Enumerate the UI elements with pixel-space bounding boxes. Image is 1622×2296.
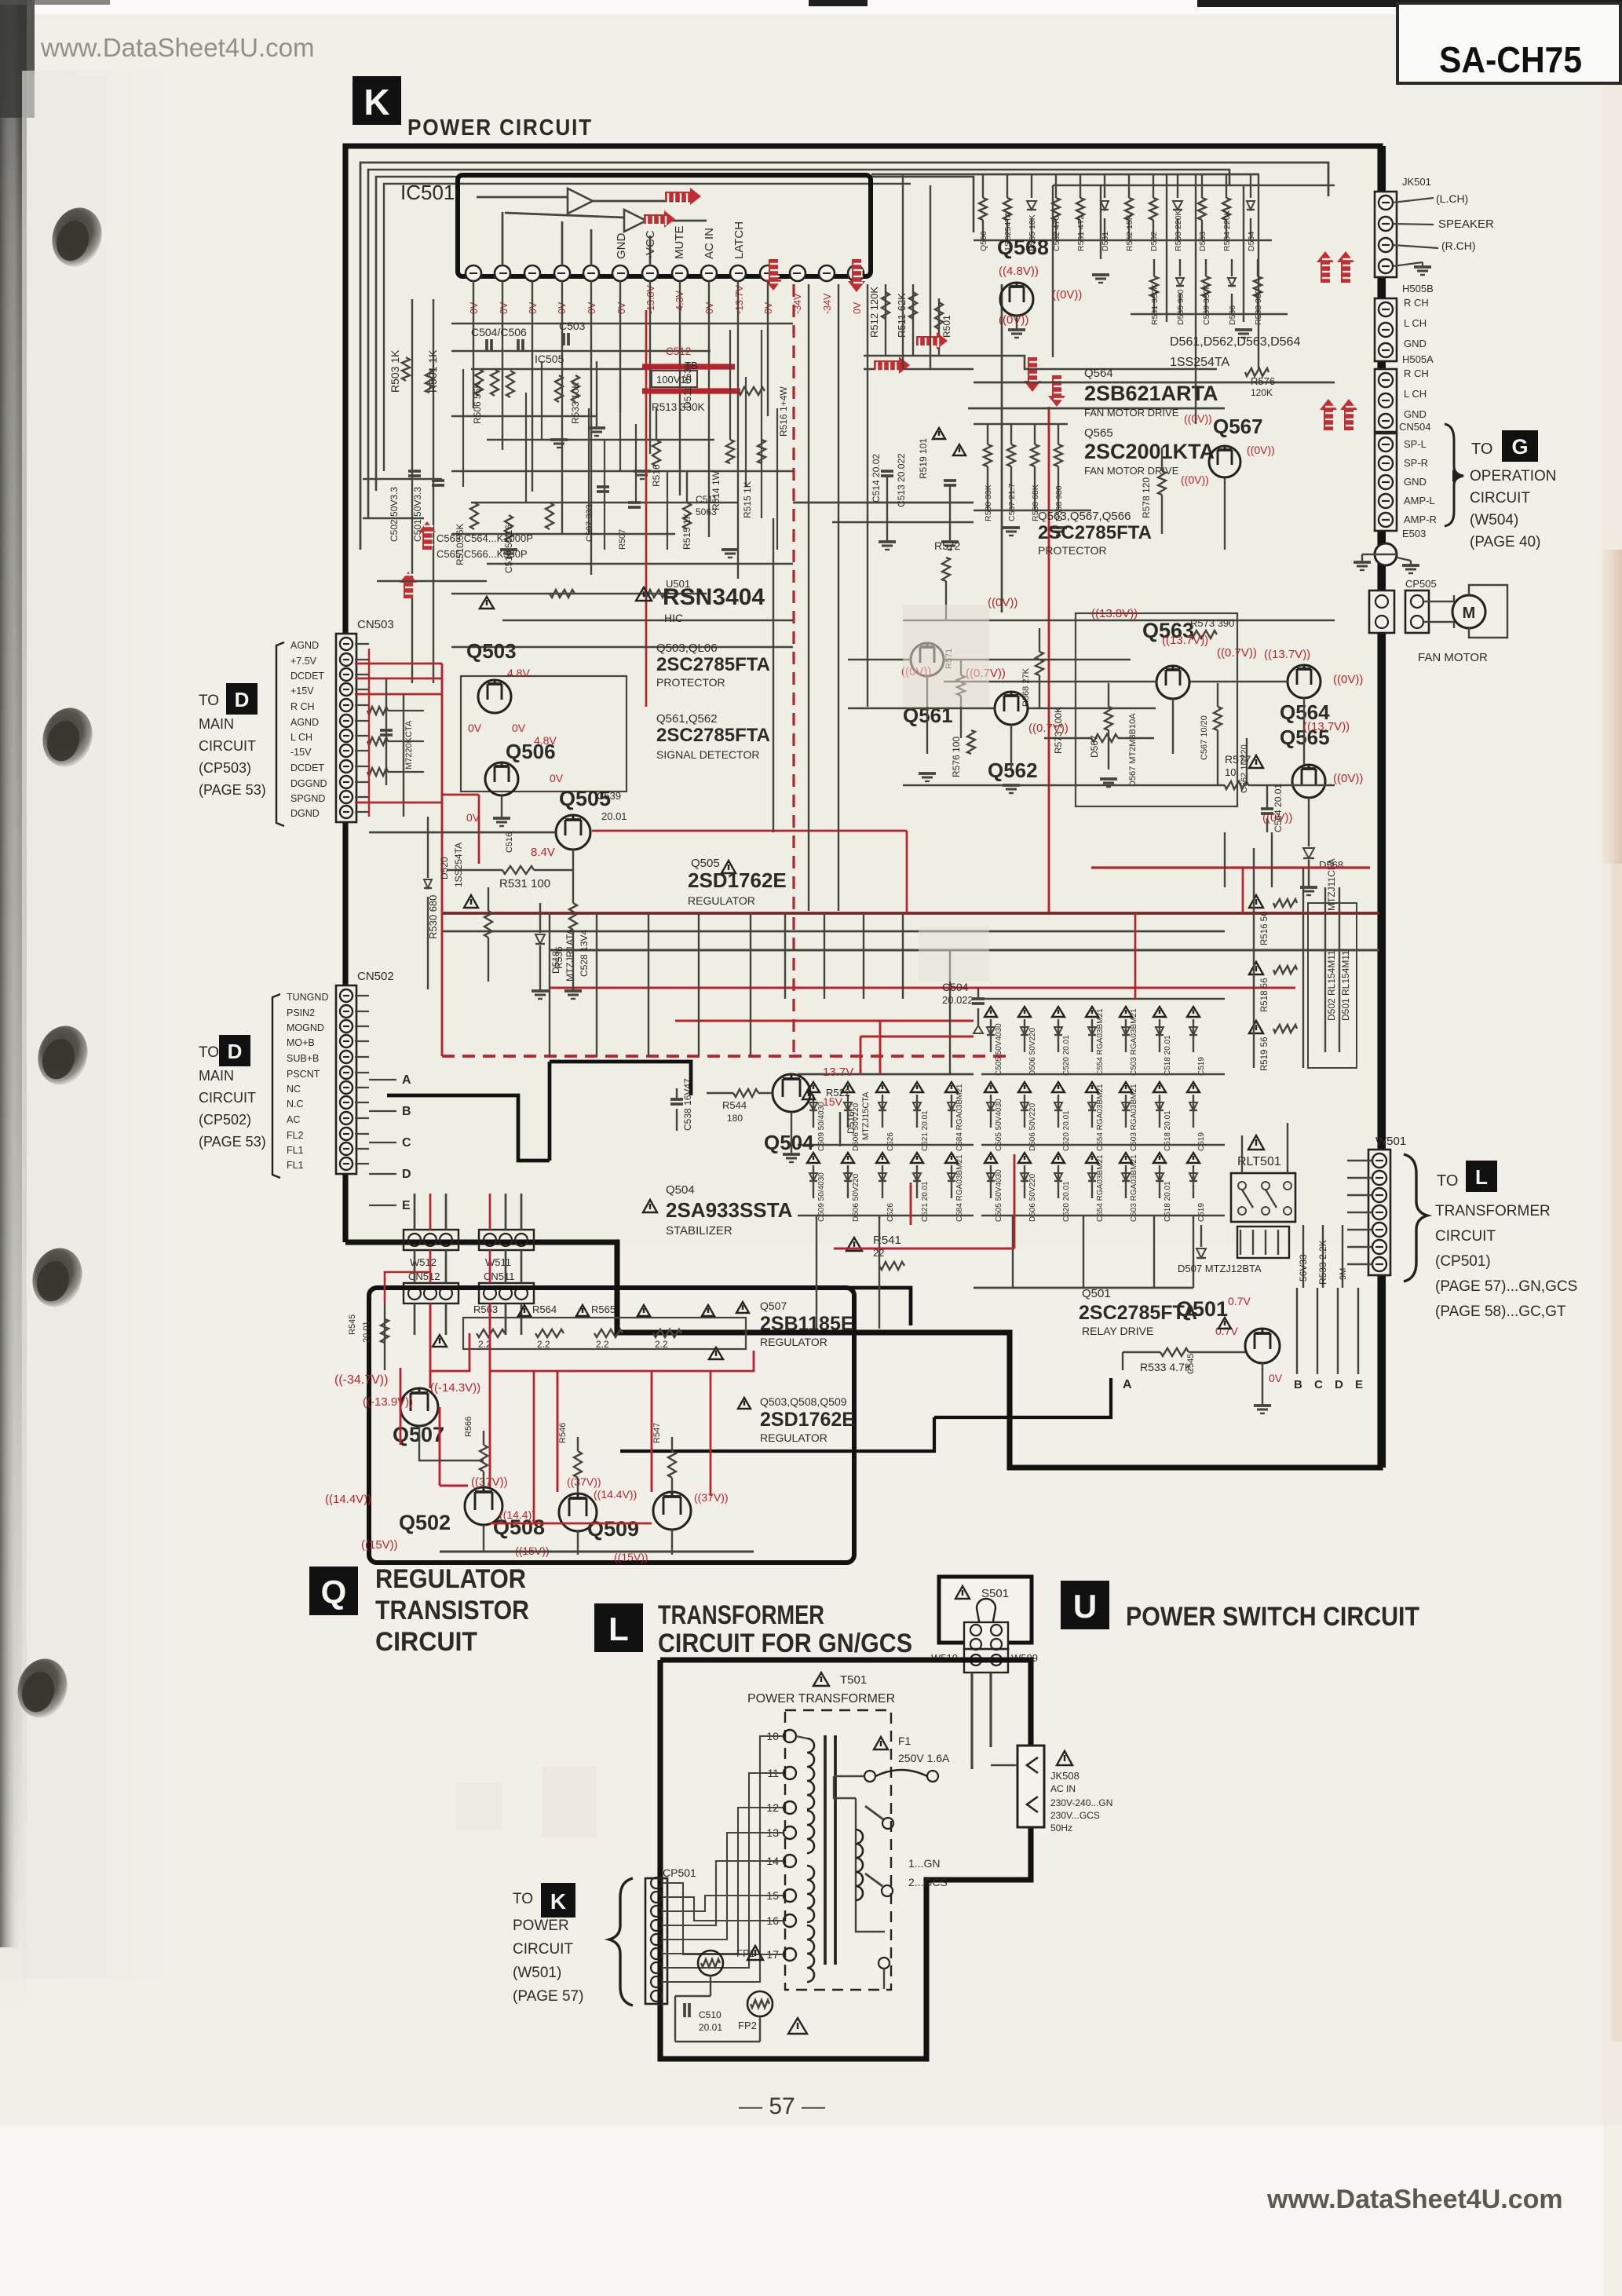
svg-text:D506 50V220: D506 50V220 [1028, 1027, 1037, 1076]
svg-text:R546: R546 [558, 1423, 568, 1443]
svg-text:D561: D561 [1101, 232, 1110, 251]
svg-text:TO: TO [199, 693, 219, 709]
svg-text:((15V)): ((15V)) [361, 1538, 398, 1552]
svg-text:GND: GND [615, 233, 628, 260]
svg-text:R581 330K: R581 330K [1150, 283, 1160, 325]
svg-text:180: 180 [727, 1113, 743, 1124]
svg-text:R572: R572 [934, 539, 961, 552]
svg-text:C509 50/4030: C509 50/4030 [817, 1172, 826, 1222]
svg-text:R580 33K: R580 33K [984, 484, 993, 521]
svg-text:IC505: IC505 [535, 353, 564, 365]
svg-text:D506 50V220: D506 50V220 [852, 1173, 860, 1222]
svg-text:AMP-L: AMP-L [1404, 495, 1435, 506]
svg-text:MO+B: MO+B [287, 1037, 315, 1048]
svg-text:Q501: Q501 [1176, 1297, 1228, 1321]
svg-text:R578 120: R578 120 [1141, 477, 1152, 518]
svg-text:A: A [402, 1073, 411, 1087]
svg-text:2...GCS: 2...GCS [908, 1876, 948, 1888]
svg-text:CN511: CN511 [484, 1270, 515, 1282]
svg-text:L: L [608, 1610, 629, 1647]
svg-text:C554 RGA03BM21: C554 RGA03BM21 [1096, 1008, 1105, 1076]
svg-text:TRANSFORMER: TRANSFORMER [658, 1600, 824, 1630]
svg-text:15V: 15V [823, 1095, 843, 1108]
svg-text:C564 20.01: C564 20.01 [1273, 784, 1284, 832]
svg-text:Q501: Q501 [1082, 1287, 1111, 1300]
svg-text:C503 RGA03BM21: C503 RGA03BM21 [1130, 1084, 1138, 1151]
svg-text:8.4V: 8.4V [531, 846, 555, 859]
svg-text:(PAGE 53): (PAGE 53) [199, 1134, 266, 1150]
svg-text:FAN MOTOR DRIVE: FAN MOTOR DRIVE [1084, 407, 1179, 419]
svg-text:(CP502): (CP502) [199, 1112, 251, 1128]
svg-text:(PAGE 40): (PAGE 40) [1470, 534, 1540, 550]
svg-text:C554 RGA03BM21: C554 RGA03BM21 [1096, 1154, 1105, 1222]
svg-text:D: D [1335, 1378, 1343, 1391]
svg-text:C539: C539 [597, 790, 621, 802]
svg-text:D567: D567 [1089, 735, 1100, 758]
svg-text:C505 50V4030: C505 50V4030 [995, 1099, 1003, 1151]
svg-text:POWER CIRCUIT: POWER CIRCUIT [407, 115, 593, 141]
svg-text:C504: C504 [942, 981, 969, 993]
svg-text:B: B [402, 1105, 411, 1118]
svg-text:R518 56: R518 56 [1260, 978, 1269, 1012]
svg-text:CIRCUIT: CIRCUIT [375, 1627, 477, 1657]
svg-text:20.01: 20.01 [601, 810, 627, 822]
svg-text:SPGND: SPGND [290, 793, 325, 804]
svg-text:((37V)): ((37V)) [567, 1475, 601, 1488]
svg-text:DCDET: DCDET [290, 671, 324, 682]
svg-text:2.2: 2.2 [537, 1339, 550, 1350]
svg-text:R511 62K: R511 62K [896, 293, 908, 338]
svg-text:TB: TB [685, 360, 698, 371]
svg-text:C503: C503 [559, 320, 586, 332]
svg-text:C501 50V3.3: C501 50V3.3 [412, 487, 423, 542]
svg-text:((0.7V)): ((0.7V)) [1217, 646, 1257, 660]
svg-text:K: K [363, 82, 389, 122]
svg-text:D567 MT2M3B10A: D567 MT2M3B10A [1128, 713, 1138, 787]
svg-text:L CH: L CH [1404, 317, 1427, 329]
svg-text:R533 2.2K: R533 2.2K [1317, 1240, 1328, 1285]
svg-text:TO: TO [513, 1891, 533, 1907]
svg-text:C: C [402, 1136, 411, 1150]
svg-text:R519 101: R519 101 [918, 438, 929, 479]
svg-text:R516 56: R516 56 [1260, 912, 1269, 945]
svg-text:C514 20.02: C514 20.02 [871, 454, 882, 503]
svg-text:2SC2785FTA: 2SC2785FTA [1038, 522, 1152, 543]
svg-text:SP-L: SP-L [1404, 438, 1427, 450]
svg-text:SP-R: SP-R [1404, 457, 1428, 469]
svg-text:2SC2785FTA: 2SC2785FTA [656, 654, 770, 675]
svg-text:PSIN2: PSIN2 [287, 1007, 315, 1018]
svg-text:(L.CH): (L.CH) [1436, 192, 1468, 205]
svg-text:2.2: 2.2 [596, 1339, 609, 1350]
svg-text:R541: R541 [873, 1234, 901, 1247]
svg-text:R536: R536 [553, 946, 564, 969]
svg-text:R530 680: R530 680 [427, 895, 439, 939]
svg-text:2SC2001KTA: 2SC2001KTA [1084, 440, 1215, 463]
svg-text:JK501: JK501 [1402, 176, 1431, 188]
svg-text:D: D [235, 688, 250, 711]
svg-text:((-13.9V)): ((-13.9V)) [363, 1395, 413, 1409]
svg-text:CP505: CP505 [1405, 578, 1437, 590]
svg-text:R513 330K: R513 330K [652, 401, 705, 413]
svg-text:G: G [1511, 435, 1528, 459]
svg-text:+15V: +15V [290, 686, 314, 696]
svg-text:56V33: 56V33 [1298, 1254, 1309, 1281]
svg-text:D565 980: D565 980 [1176, 289, 1185, 325]
svg-text:D564: D564 [1247, 232, 1256, 251]
svg-text:CIRCUIT: CIRCUIT [1435, 1228, 1496, 1245]
svg-text:((13.7V)): ((13.7V)) [1162, 634, 1208, 647]
svg-text:230V...GCS: 230V...GCS [1050, 1810, 1100, 1821]
svg-text:-15V: -15V [290, 747, 312, 758]
svg-text:C563,C564...K1000P: C563,C564...K1000P [437, 532, 533, 544]
svg-text:R576 100: R576 100 [951, 737, 962, 777]
svg-text:((0V)): ((0V)) [1333, 673, 1363, 686]
svg-text:2SB621ARTA: 2SB621ARTA [1084, 382, 1218, 405]
svg-text:R506 56K: R506 56K [472, 382, 483, 424]
svg-text:((-14.3V)): ((-14.3V)) [430, 1381, 480, 1395]
svg-text:R563: R563 [473, 1303, 498, 1315]
svg-text:R562 15K: R562 15K [1125, 214, 1134, 251]
svg-text:AC IN: AC IN [703, 228, 716, 259]
svg-text:D506 50V220: D506 50V220 [1028, 1102, 1037, 1151]
svg-text:2SC2785FTA: 2SC2785FTA [656, 725, 770, 746]
svg-text:FAN MOTOR DRIVE: FAN MOTOR DRIVE [1084, 465, 1179, 477]
svg-text:((0V)): ((0V)) [1181, 473, 1209, 486]
svg-text:Q509: Q509 [587, 1517, 639, 1541]
svg-text:NC: NC [287, 1084, 301, 1095]
svg-text:TO: TO [1471, 441, 1492, 458]
svg-text:R566: R566 [464, 1417, 473, 1437]
svg-text:STABILIZER: STABILIZER [666, 1224, 732, 1238]
svg-text:R544: R544 [722, 1099, 747, 1111]
svg-text:C503 RGA03BM21: C503 RGA03BM21 [1130, 1008, 1138, 1076]
svg-text:GND: GND [1404, 476, 1427, 488]
svg-text:R CH: R CH [1404, 297, 1429, 309]
svg-text:SPEAKER: SPEAKER [1438, 218, 1494, 231]
svg-text:FL1: FL1 [287, 1160, 304, 1171]
svg-text:AMP-R: AMP-R [1404, 514, 1437, 525]
svg-text:C502 50V3.3: C502 50V3.3 [389, 487, 400, 542]
svg-text:((13.8V)): ((13.8V)) [1091, 607, 1138, 620]
svg-text:(W501): (W501) [513, 1965, 561, 1981]
svg-text:10: 10 [1225, 766, 1236, 778]
svg-text:((0V)): ((0V)) [1052, 288, 1082, 302]
svg-text:1...GN: 1...GN [908, 1857, 940, 1870]
svg-text:R501: R501 [941, 315, 952, 338]
svg-text:U501: U501 [666, 578, 690, 590]
svg-text:120K: 120K [1251, 387, 1273, 398]
svg-text:N.C: N.C [287, 1099, 304, 1110]
svg-text:(PAGE 57)...GN,GCS: (PAGE 57)...GN,GCS [1435, 1278, 1577, 1295]
svg-text:MAIN: MAIN [199, 716, 234, 732]
svg-text:C505 50V4030: C505 50V4030 [995, 1169, 1003, 1222]
svg-text:D506 50V220: D506 50V220 [1028, 1173, 1037, 1222]
svg-text:R561 4T2: R561 4T2 [1076, 215, 1086, 251]
svg-text:IC501: IC501 [400, 181, 455, 204]
svg-text:JK508: JK508 [1050, 1770, 1080, 1782]
svg-text:2SD1762E: 2SD1762E [760, 1409, 855, 1431]
svg-text:CN504: CN504 [1399, 421, 1430, 433]
svg-text:MTZJ15CTA: MTZJ15CTA [861, 1091, 871, 1140]
svg-text:((0.7V)): ((0.7V)) [1028, 722, 1069, 735]
svg-text:Q507: Q507 [760, 1300, 787, 1312]
svg-text:C545: C545 [1186, 1354, 1196, 1374]
svg-text:Q561,Q562: Q561,Q562 [656, 712, 718, 726]
svg-text:C569 330K: C569 330K [1202, 283, 1211, 325]
svg-text:C519: C519 [1197, 1132, 1206, 1151]
svg-text:R515 1K: R515 1K [681, 513, 692, 550]
svg-text:OPERATION: OPERATION [1470, 468, 1557, 484]
svg-text:50Hz: 50Hz [1050, 1823, 1072, 1834]
svg-text:C: C [1314, 1378, 1323, 1391]
svg-text:HIC: HIC [664, 612, 683, 624]
svg-text:Q503: Q503 [466, 639, 517, 663]
svg-text:230V-240...GN: 230V-240...GN [1050, 1797, 1112, 1808]
svg-text:www.DataSheet4U.com: www.DataSheet4U.com [1266, 2184, 1563, 2214]
svg-text:C520 20.01: C520 20.01 [1062, 1035, 1071, 1076]
svg-text:(CP503): (CP503) [199, 760, 251, 776]
svg-text:GND: GND [1404, 408, 1427, 420]
svg-text:C584 RGA03BM21: C584 RGA03BM21 [955, 1084, 964, 1151]
svg-text:CN503: CN503 [357, 618, 394, 631]
svg-text:H505B: H505B [1402, 283, 1434, 294]
svg-text:(R.CH): (R.CH) [1441, 239, 1476, 252]
svg-text:((13.7V)): ((13.7V)) [1303, 720, 1350, 733]
svg-text:REGULATOR: REGULATOR [760, 1431, 827, 1444]
svg-text:Q568: Q568 [997, 236, 1049, 259]
svg-text:D: D [228, 1040, 243, 1063]
svg-text:R576: R576 [1251, 375, 1275, 387]
svg-text:R533 4.7K: R533 4.7K [1140, 1361, 1193, 1373]
svg-text:AC IN: AC IN [1050, 1783, 1076, 1794]
svg-text:((0V)): ((0V)) [988, 596, 1017, 609]
svg-text:((13.7V)): ((13.7V)) [1264, 648, 1310, 661]
svg-text:(CP501): (CP501) [1435, 1253, 1491, 1270]
svg-text:R547: R547 [652, 1423, 662, 1443]
svg-text:R CH: R CH [290, 701, 315, 712]
svg-text:D516: D516 [846, 1111, 857, 1134]
svg-text:L CH: L CH [1404, 388, 1427, 400]
svg-text:SIGNAL DETECTOR: SIGNAL DETECTOR [656, 748, 759, 761]
svg-text:PROTECTOR: PROTECTOR [1038, 544, 1107, 557]
svg-text:0V: 0V [550, 772, 564, 784]
svg-text:C526: C526 [886, 1132, 895, 1151]
svg-text:C504/C506: C504/C506 [471, 326, 527, 338]
svg-text:R564: R564 [532, 1303, 557, 1315]
svg-text:SA-CH75: SA-CH75 [1439, 39, 1582, 80]
svg-text:((14.4)): ((14.4)) [499, 1508, 535, 1521]
svg-text:LATCH: LATCH [732, 221, 746, 259]
svg-text:R507: R507 [618, 529, 627, 550]
svg-text:GND: GND [1404, 338, 1427, 349]
svg-text:20.01: 20.01 [699, 2022, 722, 2033]
svg-text:PSCNT: PSCNT [287, 1069, 320, 1080]
svg-text:R512 120K: R512 120K [868, 287, 880, 338]
svg-text:CP501: CP501 [663, 1866, 696, 1879]
svg-text:4.8V: 4.8V [507, 667, 530, 679]
svg-text:L: L [1475, 1165, 1488, 1189]
svg-text:Q565: Q565 [1084, 426, 1113, 440]
svg-text:C584 RGA03BM21: C584 RGA03BM21 [955, 1154, 964, 1222]
svg-text:RELAY DRIVE: RELAY DRIVE [1082, 1325, 1153, 1337]
svg-text:C528 13V4: C528 13V4 [579, 930, 590, 977]
svg-text:D520: D520 [439, 857, 450, 879]
svg-text:R573 390: R573 390 [1190, 617, 1234, 629]
svg-text:FL1: FL1 [287, 1145, 304, 1156]
svg-text:C507 333: C507 333 [585, 504, 594, 542]
svg-text:REGULATOR: REGULATOR [375, 1564, 526, 1594]
svg-text:0V: 0V [512, 722, 526, 734]
svg-text:((-34.7V)): ((-34.7V)) [334, 1373, 388, 1387]
svg-text:C526: C526 [886, 1203, 895, 1222]
svg-text:C512: C512 [666, 345, 691, 357]
svg-text:2SD1762E: 2SD1762E [688, 868, 787, 892]
svg-text:(PAGE 58)...GC,GT: (PAGE 58)...GC,GT [1435, 1303, 1566, 1320]
svg-text:((4.8V)): ((4.8V)) [999, 265, 1039, 278]
svg-text:C554 RGA03BM21: C554 RGA03BM21 [1096, 1084, 1105, 1151]
svg-text:Q503,Q508,Q509: Q503,Q508,Q509 [760, 1395, 847, 1408]
svg-text:0V: 0V [616, 302, 627, 314]
svg-text:DGND: DGND [290, 808, 320, 819]
svg-text:AGND: AGND [290, 717, 319, 728]
svg-text:Q563,Q567,Q566: Q563,Q567,Q566 [1038, 510, 1131, 523]
svg-text:FAN MOTOR: FAN MOTOR [1418, 651, 1488, 664]
svg-text:((14.4V)): ((14.4V)) [325, 1493, 371, 1506]
svg-text:H505A: H505A [1402, 353, 1434, 365]
svg-text:C516: C516 [505, 832, 514, 853]
svg-text:((0V)): ((0V)) [1333, 772, 1363, 785]
svg-text:TRANSFORMER: TRANSFORMER [1435, 1203, 1551, 1219]
svg-text:TRANSISTOR: TRANSISTOR [375, 1596, 529, 1625]
svg-text:+7.5V: +7.5V [290, 656, 317, 667]
svg-text:POWER TRANSFORMER: POWER TRANSFORMER [747, 1692, 895, 1706]
svg-text:0V: 0V [852, 302, 863, 314]
svg-text:Q567: Q567 [1213, 415, 1263, 438]
svg-text:1SS254TA: 1SS254TA [1170, 356, 1230, 369]
svg-text:Q: Q [321, 1574, 347, 1610]
svg-text:R CH: R CH [1404, 367, 1429, 379]
svg-text:(W504): (W504) [1470, 512, 1518, 528]
svg-text:F1: F1 [898, 1735, 911, 1747]
svg-text:L CH: L CH [290, 732, 312, 743]
svg-text:U: U [1073, 1588, 1097, 1625]
svg-text:PROTECTOR: PROTECTOR [656, 676, 725, 689]
svg-text:0V: 0V [499, 302, 510, 314]
svg-text:W501: W501 [1375, 1135, 1406, 1148]
svg-text:MAIN: MAIN [199, 1068, 234, 1084]
svg-text:TO: TO [199, 1044, 219, 1061]
svg-text:FL2: FL2 [287, 1130, 304, 1141]
svg-text:R516 1+4W: R516 1+4W [778, 386, 789, 437]
svg-text:D563: D563 [1198, 232, 1207, 251]
svg-text:AC: AC [287, 1114, 300, 1125]
svg-text:Q562: Q562 [988, 759, 1038, 782]
svg-text:C519: C519 [1197, 1203, 1206, 1222]
svg-text:CIRCUIT: CIRCUIT [199, 738, 256, 754]
svg-text:D501 RL154M11: D501 RL154M11 [1340, 950, 1351, 1021]
svg-text:MOGND: MOGND [287, 1022, 324, 1033]
svg-text:M: M [1463, 605, 1476, 622]
svg-text:2.2: 2.2 [655, 1339, 668, 1350]
svg-text:REGULATOR: REGULATOR [760, 1336, 827, 1348]
svg-text:R563 220K: R563 220K [1174, 210, 1183, 251]
svg-text:0V: 0V [1269, 1372, 1283, 1384]
svg-text:C519: C519 [1197, 1057, 1206, 1076]
svg-text:— 57 —: — 57 — [739, 2093, 825, 2119]
svg-text:20.01: 20.01 [362, 1321, 371, 1343]
svg-text:R564 220K: R564 220K [1222, 210, 1232, 251]
svg-text:D561,D562,D563,D564: D561,D562,D563,D564 [1170, 335, 1300, 349]
svg-text:-34V: -34V [822, 293, 833, 314]
svg-text:Q503,QL06: Q503,QL06 [656, 642, 718, 655]
svg-text:(PAGE 57): (PAGE 57) [513, 1988, 583, 2005]
svg-text:www.DataSheet4U.com: www.DataSheet4U.com [40, 33, 314, 62]
svg-text:C505 50V4030: C505 50V4030 [995, 1023, 1003, 1076]
svg-text:R533 10K: R533 10K [570, 382, 581, 424]
svg-text:R568 27K: R568 27K [1021, 667, 1031, 707]
svg-text:K: K [550, 1889, 566, 1914]
svg-text:B: B [1294, 1378, 1302, 1391]
svg-text:R503 1K: R503 1K [389, 349, 401, 393]
svg-text:CIRCUIT FOR GN/GCS: CIRCUIT FOR GN/GCS [658, 1629, 912, 1658]
svg-text:C513 20.022: C513 20.022 [896, 453, 907, 507]
svg-text:AGND: AGND [290, 640, 319, 651]
svg-text:Q564: Q564 [1084, 367, 1113, 380]
svg-text:CIRCUIT: CIRCUIT [1470, 490, 1530, 506]
svg-text:0V: 0V [468, 722, 482, 734]
svg-text:((0V)): ((0V)) [1247, 444, 1275, 456]
svg-text:POWER: POWER [513, 1918, 569, 1934]
svg-text:SUB+B: SUB+B [287, 1053, 319, 1064]
svg-text:D566: D566 [1228, 305, 1237, 325]
svg-text:9M: 9M [1339, 1268, 1348, 1280]
svg-text:C503 RGA03BM21: C503 RGA03BM21 [1130, 1154, 1138, 1222]
svg-text:D: D [402, 1168, 411, 1181]
svg-text:D562: D562 [1149, 232, 1159, 251]
svg-text:(PAGE 53): (PAGE 53) [199, 782, 266, 798]
svg-text:Q504: Q504 [764, 1131, 814, 1154]
svg-text:250V 1.6A: 250V 1.6A [898, 1752, 950, 1764]
svg-text:R577: R577 [1225, 753, 1251, 766]
svg-text:5063: 5063 [696, 506, 717, 517]
svg-text:CIRCUIT: CIRCUIT [513, 1941, 573, 1958]
svg-text:20.022: 20.022 [942, 994, 974, 1006]
svg-text:CIRCUIT: CIRCUIT [199, 1090, 256, 1106]
svg-text:2SA933SSTA: 2SA933SSTA [666, 1198, 793, 1222]
svg-text:C510: C510 [699, 2009, 721, 2020]
svg-text:DCDET: DCDET [290, 762, 324, 773]
svg-text:E503: E503 [1402, 528, 1426, 539]
svg-text:2SB1185E: 2SB1185E [760, 1313, 854, 1335]
svg-text:DGGND: DGGND [290, 778, 327, 789]
svg-text:C567 10/20: C567 10/20 [1200, 715, 1209, 760]
svg-text:TUNGND: TUNGND [287, 992, 328, 1003]
svg-text:13.7V: 13.7V [823, 1066, 853, 1079]
svg-text:MUTE: MUTE [673, 226, 686, 260]
svg-text:POWER SWITCH CIRCUIT: POWER SWITCH CIRCUIT [1126, 1602, 1419, 1632]
svg-text:A: A [1123, 1378, 1132, 1391]
svg-text:E: E [1355, 1378, 1363, 1391]
svg-text:((14.4V)): ((14.4V)) [594, 1488, 637, 1501]
svg-text:R545: R545 [348, 1314, 357, 1335]
svg-text:CN502: CN502 [357, 970, 394, 983]
svg-text:0.7V: 0.7V [1228, 1295, 1251, 1307]
svg-text:R519 56: R519 56 [1260, 1037, 1269, 1071]
svg-text:C518 20.01: C518 20.01 [1164, 1035, 1172, 1076]
svg-text:E: E [402, 1199, 411, 1212]
svg-text:R565: R565 [591, 1303, 616, 1315]
